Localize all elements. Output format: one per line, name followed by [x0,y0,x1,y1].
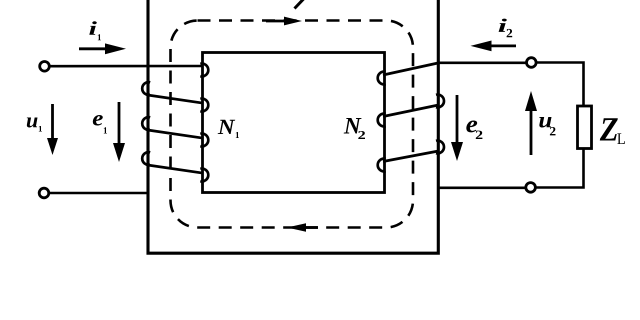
flux path (dashed loop) [171,21,414,228]
wire bottom-left [49,192,150,195]
core window (inner rectangle) [203,53,385,193]
turn loop left 1 [378,72,386,85]
label ZL letter Z (load impedance) [600,118,618,140]
label ZL subscript L [617,133,625,144]
label e2 subscript 2 [476,131,483,139]
label u2 subscript 2 [550,127,556,135]
load Z_L box [578,106,592,149]
terminal bottom-left [39,188,49,198]
turn loop right 1 [200,64,208,77]
terminal bottom-right [526,183,536,193]
winding diagonal 3 [383,151,439,162]
turn loop right 3 [200,134,208,147]
winding diagonal 1 [148,95,204,103]
winding diagonal 1 [383,63,438,75]
core (outer outline, top cut off) [148,0,438,253]
arrow i1 (rightward) [79,43,126,54]
primary winding N1 (left leg) [142,64,208,182]
turn loop right 4 [200,169,208,182]
arrow u2 (upward) [525,91,537,155]
turn loop left 2 [378,114,386,127]
winding diagonal 2 [148,130,204,138]
label e1 subscript 1 [104,127,107,133]
label u1 subscript 1 [39,126,42,132]
arrow e2 (downward) [451,95,463,161]
label i1 letter [89,21,97,34]
turn loop left 2 [142,117,150,130]
arrow u1 (downward) [47,104,58,155]
terminal top-right [527,58,537,68]
label u1 letter [27,118,38,128]
terminal top-left [40,62,50,72]
winding diagonal 3 [148,165,204,173]
flux arrow top (rightward) [266,17,302,26]
label N2 subscript 2 [358,131,365,139]
label u2 letter [539,117,551,128]
label i2 letter [499,19,507,32]
turn loop right 2 [436,141,444,154]
label e1 letter [93,115,103,126]
wire top-left [50,65,203,68]
wire bottom-right [438,149,584,188]
label e2 letter [466,121,477,133]
winding diagonal 2 [383,105,439,117]
label N1 letter (primary turns) [218,120,236,134]
turn loop left 3 [142,152,150,165]
wire top-right [438,63,584,107]
turn loop left 3 [378,159,386,172]
turn loop right 2 [200,99,208,112]
arrow e1 (downward) [113,102,125,162]
label N1 subscript 1 [236,132,239,138]
flux arrow bottom (leftward) [287,223,318,232]
label i1 subscript 1 [98,34,101,40]
secondary winding N2 (right leg) [378,63,444,171]
arrow i2 (leftward) [471,41,517,52]
turn loop left 1 [142,82,150,95]
label N2 letter (secondary turns) [344,118,362,134]
turn loop right 1 [436,95,444,108]
flux label leader line (cut off at top) [295,0,305,9]
label i2 subscript 2 [507,29,513,37]
